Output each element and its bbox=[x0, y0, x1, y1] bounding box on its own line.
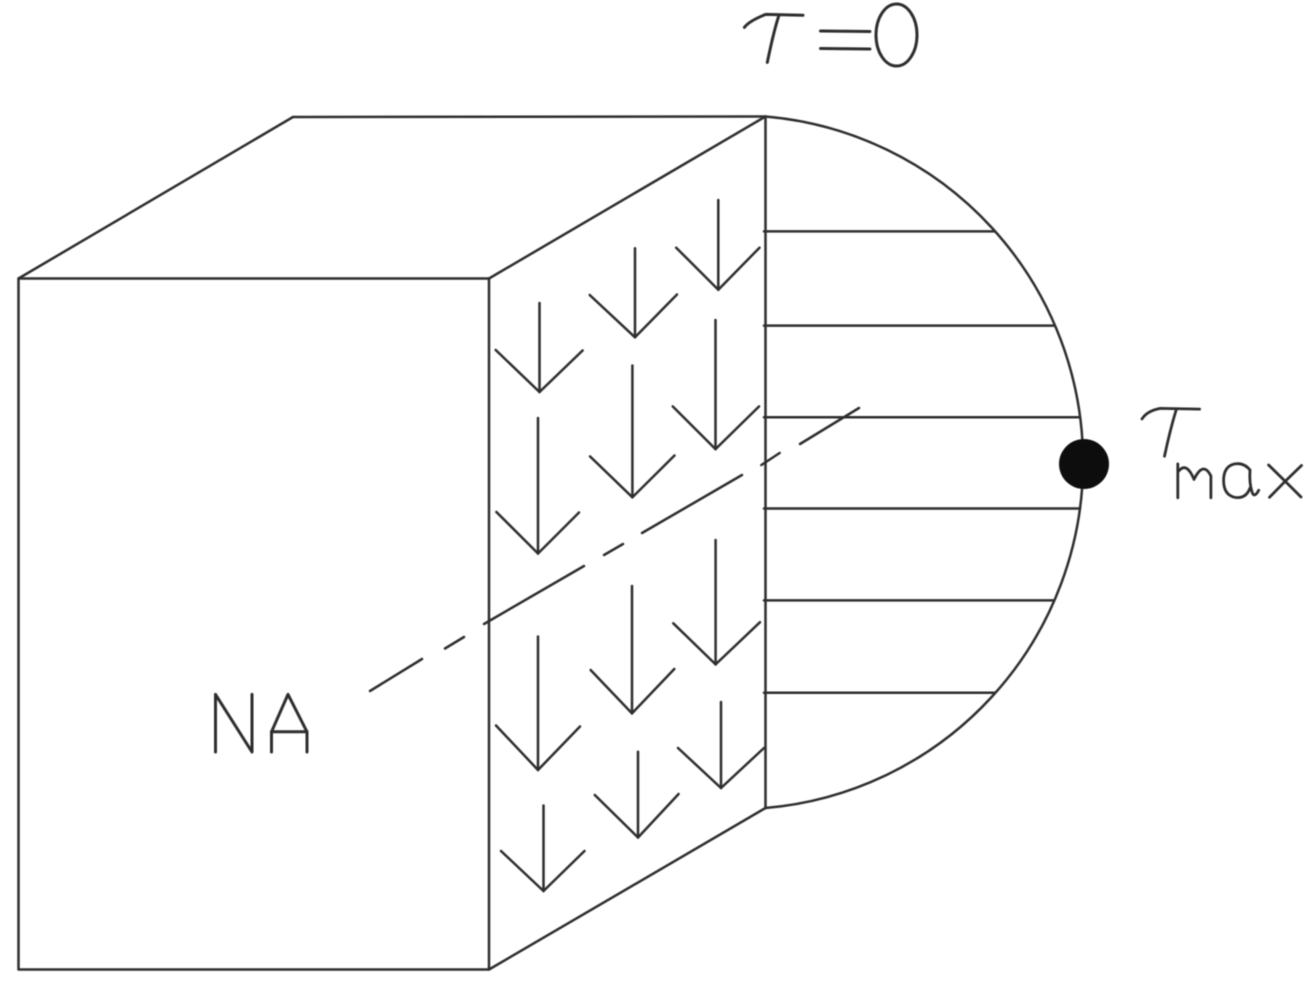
shear arrow col2 row3 bbox=[591, 586, 675, 713]
right face bottom diagonal edge bbox=[489, 808, 766, 970]
tau glyph bbox=[1142, 408, 1200, 419]
top face left diagonal edge bbox=[19, 117, 294, 279]
hatch line 5 bbox=[764, 599, 1054, 602]
shear arrow col3 row3 bbox=[673, 540, 760, 664]
right face rear vertical edge (section cut line) bbox=[764, 117, 767, 809]
shear arrow col1 row1 bbox=[496, 303, 583, 392]
shear arrow col1 row4 bbox=[501, 806, 585, 892]
right face top diagonal edge bbox=[489, 117, 766, 279]
hatch line 6 bbox=[764, 692, 995, 695]
shear arrow col2 row4 bbox=[595, 752, 679, 838]
tau max point marker bbox=[1059, 439, 1109, 489]
neutral axis dash-dot centerline bbox=[370, 408, 859, 691]
shear arrow col1 row3 bbox=[496, 637, 580, 771]
letter N bbox=[216, 694, 253, 752]
hatch line 4 bbox=[764, 507, 1080, 510]
hatch line 3 bbox=[764, 416, 1080, 419]
letter A bbox=[272, 694, 308, 752]
letter x bbox=[1269, 465, 1302, 497]
zero glyph bbox=[876, 4, 917, 66]
letter m bbox=[1178, 464, 1211, 498]
front face of beam block bbox=[19, 279, 490, 970]
parabolic shear stress distribution curve bbox=[766, 117, 1084, 809]
tau glyph bbox=[744, 14, 803, 27]
shear arrow col3 row2 bbox=[673, 320, 759, 449]
hatch line 1 bbox=[764, 230, 995, 233]
label NA (neutral axis) bbox=[216, 694, 308, 752]
shear arrow col3 row4 bbox=[678, 702, 764, 788]
equals sign bbox=[821, 30, 870, 34]
label tau = 0 bbox=[744, 4, 917, 66]
shear arrow col3 row1 bbox=[676, 200, 759, 290]
hatch line 2 bbox=[764, 324, 1054, 327]
letter a bbox=[1224, 464, 1259, 498]
shear arrow col1 row2 bbox=[496, 418, 579, 554]
top face far horizontal edge bbox=[293, 115, 766, 118]
label tau max bbox=[1142, 408, 1302, 497]
shear arrow col2 row2 bbox=[590, 366, 675, 498]
shear arrow col2 row1 bbox=[590, 248, 677, 337]
